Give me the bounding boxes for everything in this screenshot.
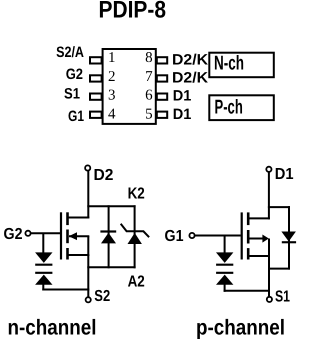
body diode branch vertical p xyxy=(288,206,290,270)
wire G1 to gate xyxy=(195,235,241,237)
svg-text:D1: D1 xyxy=(173,106,192,123)
wire body to source junction xyxy=(87,236,89,256)
wire D2 vertical xyxy=(87,171,89,219)
pin 2 xyxy=(90,75,102,81)
body diode D5 (cathode up) xyxy=(100,230,116,232)
wire body junction down xyxy=(268,239,270,258)
wire drain stub xyxy=(67,217,90,219)
legend box N-ch xyxy=(209,53,273,77)
svg-text:K2: K2 xyxy=(128,185,145,202)
svg-text:D1: D1 xyxy=(275,166,294,183)
svg-text:2: 2 xyxy=(108,69,116,85)
svg-text:7: 7 xyxy=(145,69,153,85)
svg-text:D1: D1 xyxy=(173,87,192,104)
diode D3 gate protection (cathode down) xyxy=(35,252,52,263)
body diode branch vertical xyxy=(108,205,110,268)
pin 1 xyxy=(90,57,102,63)
pin 5 xyxy=(157,112,167,118)
svg-text:S2: S2 xyxy=(94,288,110,305)
diode D4 gate protection (cathode up) xyxy=(35,272,52,274)
svg-text:8: 8 xyxy=(145,50,153,66)
svg-text:6: 6 xyxy=(145,88,153,104)
svg-text:S2/A: S2/A xyxy=(56,44,84,61)
wire top rail to diodes xyxy=(87,205,135,207)
wire S1 vertical xyxy=(268,256,270,297)
legend box P-ch xyxy=(209,95,273,120)
wire S2 vertical xyxy=(87,255,89,297)
svg-text:5: 5 xyxy=(145,106,153,122)
pin 3 xyxy=(90,94,102,100)
svg-text:4: 4 xyxy=(108,106,116,122)
body diode D8 (cathode down) xyxy=(281,232,296,242)
wire G2 to gate xyxy=(31,232,60,234)
svg-text:D2/K: D2/K xyxy=(172,52,208,69)
pin 6 xyxy=(157,94,167,100)
svg-text:3: 3 xyxy=(108,88,116,104)
zener branch vertical xyxy=(134,205,136,268)
svg-text:S1: S1 xyxy=(64,86,80,103)
transistor Q1 channel segment drain xyxy=(66,212,69,225)
wire gate protection branch vertical top xyxy=(42,233,44,253)
transistor Q2 channel segment body xyxy=(247,230,250,244)
pin 8 xyxy=(157,57,167,63)
transistor Q2 gate bar xyxy=(241,212,243,259)
svg-text:G2: G2 xyxy=(4,226,23,243)
wire gate protection branch vertical bottom p xyxy=(224,284,226,292)
svg-text:p-channel: p-channel xyxy=(196,316,285,340)
wire top rail to body diode xyxy=(268,206,290,208)
svg-text:D2/K: D2/K xyxy=(172,70,208,87)
wire gate protection branch vertical top p xyxy=(224,236,226,254)
svg-text:A2: A2 xyxy=(128,274,145,291)
svg-text:n-channel: n-channel xyxy=(8,316,97,340)
pin 7 xyxy=(157,75,167,81)
diode D7 gate protection (cathode up) xyxy=(216,272,233,274)
svg-text:P-ch: P-ch xyxy=(215,97,243,119)
transistor Q2 channel segment source xyxy=(247,248,250,259)
terminal S2 xyxy=(86,297,91,302)
transistor Q2 channel segment drain xyxy=(247,212,250,225)
wire bottom rail p xyxy=(268,268,290,270)
svg-text:S1: S1 xyxy=(275,289,290,306)
svg-text:G1: G1 xyxy=(165,228,184,245)
terminal S1 xyxy=(267,297,272,302)
IC body U1 xyxy=(103,49,156,124)
transistor Q1 gate bar xyxy=(60,212,62,259)
wire source stub xyxy=(67,254,90,256)
transistor Q1 channel segment source xyxy=(66,248,69,260)
wire D1 vertical xyxy=(268,172,270,219)
terminal D2 xyxy=(85,165,90,170)
wire drain stub p xyxy=(247,217,270,219)
wire gate protection to source p xyxy=(224,290,270,292)
diode D6 gate protection (cathode down) xyxy=(216,252,233,263)
wire gate protection to source xyxy=(42,289,89,291)
zener diode Z1 (cathode up, bent bar) xyxy=(128,233,142,244)
wire source stub p xyxy=(247,255,270,257)
transistor Q2 body stub with arrow xyxy=(248,238,263,240)
svg-text:PDIP-8: PDIP-8 xyxy=(99,0,167,24)
svg-text:G1: G1 xyxy=(68,108,84,125)
svg-text:G2: G2 xyxy=(66,66,83,83)
svg-text:1: 1 xyxy=(108,50,116,66)
svg-text:D2: D2 xyxy=(94,167,114,184)
wire bottom rail xyxy=(87,266,135,268)
pin 4 xyxy=(90,112,102,118)
svg-text:N-ch: N-ch xyxy=(214,53,244,75)
wire gate protection branch vertical bottom xyxy=(42,284,44,291)
transistor Q1 channel segment body xyxy=(66,230,69,244)
terminal D1 xyxy=(266,167,271,172)
transistor Q1 body stub with arrow xyxy=(69,235,89,237)
